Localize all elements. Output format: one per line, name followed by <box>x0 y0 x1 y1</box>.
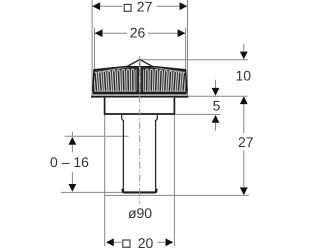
dimension extension line: square-27 right <box>187 0 189 95</box>
grate bottom light separation <box>94 90 186 92</box>
dome side edges <box>93 69 94 92</box>
svg-text:5: 5 <box>213 98 221 114</box>
svg-text:26: 26 <box>130 25 146 41</box>
reference line A (dome top, for 10) <box>142 59 249 61</box>
dome center cone cap <box>127 60 153 67</box>
pipe bottom edge <box>123 189 157 193</box>
flange plate (square 27) <box>91 96 188 98</box>
pipe body <box>122 120 124 192</box>
dimension line square-27 (top) <box>92 5 122 7</box>
reference line C (collar bottom, for 5) <box>176 113 221 115</box>
svg-text:10: 10 <box>236 68 252 84</box>
dimension extension line: 26 right <box>185 28 187 71</box>
svg-text:ø90: ø90 <box>128 205 152 221</box>
svg-text:27: 27 <box>238 134 254 150</box>
svg-text:0 – 16: 0 – 16 <box>50 154 89 170</box>
dimension 27 (right, pipe length): line, arrows + label <box>240 96 248 104</box>
centerline (dash-dot) <box>139 56 141 204</box>
collar (square 20 socket) <box>105 98 175 114</box>
dimension extension line: square-20 left <box>104 115 106 246</box>
dimension extension line: square-27 left <box>91 0 93 95</box>
dome grate dark body <box>93 67 187 92</box>
bottom reference line (pipe end, for 27) <box>105 194 249 196</box>
dome rim line <box>94 67 186 70</box>
dimension line 26 <box>95 32 127 34</box>
dimension 5 (right, collar height): arrows + label <box>215 80 217 88</box>
pipe socket taper <box>122 115 124 121</box>
dome base band <box>93 92 187 95</box>
dome center column <box>136 67 143 92</box>
dimension extension line: square-20 right <box>173 115 175 246</box>
reference line B (plate top, for 10/5/27) <box>189 95 248 97</box>
dome grate slat highlights (white arches) <box>94 69 186 91</box>
dome rim inner light line <box>95 67 185 73</box>
dimension extension line: 26 left <box>94 28 96 71</box>
dimension 10 (right, dome height): arrows + label <box>243 44 245 52</box>
label square 27 <box>124 4 131 11</box>
svg-text:20: 20 <box>138 235 154 250</box>
dimension 0-16 (left, adjustable height): ref lines, arrows + label <box>65 135 129 137</box>
svg-text:27: 27 <box>137 0 153 14</box>
dimension line square-20 (bottom) + label <box>106 238 114 246</box>
